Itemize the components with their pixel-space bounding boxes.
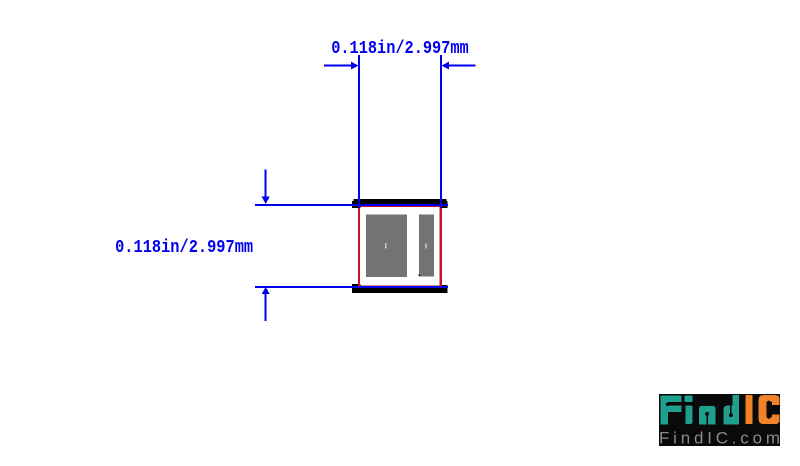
terminal bar top	[352, 199, 447, 208]
left dim horizontal line lower	[255, 286, 448, 288]
d circuit dot + trace	[729, 413, 733, 417]
letter I	[746, 395, 753, 424]
letter i	[685, 396, 693, 403]
logo background	[659, 394, 780, 446]
F circuit dot + trace	[666, 402, 670, 406]
C circuit dots + trace	[767, 401, 771, 405]
arrowhead right-pointing (top dim left)	[351, 62, 359, 70]
arrowhead left-pointing (top dim right)	[442, 62, 450, 70]
svg-text:0.118in/2.997mm: 0.118in/2.997mm	[115, 237, 253, 258]
terminal bar bottom	[352, 284, 447, 293]
top dim arrow line left	[324, 65, 352, 67]
pad 2 label	[425, 243, 427, 248]
pad 1 label	[385, 243, 387, 248]
arrowhead up-pointing (left dim lower)	[262, 287, 270, 294]
component body outline (red)	[359, 206, 441, 287]
letter F	[661, 396, 682, 425]
left dim horizontal line upper	[255, 204, 448, 206]
dimension lines (blue)	[255, 55, 476, 321]
FindIC logo	[659, 394, 780, 448]
pad 2	[419, 214, 434, 276]
extension line left (vertical)	[358, 55, 360, 208]
arrowhead down-pointing (left dim upper)	[262, 197, 270, 204]
letter C	[759, 395, 780, 424]
extension line right (vertical)	[440, 55, 442, 208]
pad 1	[366, 214, 407, 276]
n circuit dot + trace	[705, 412, 709, 416]
i circuit dot	[683, 402, 687, 406]
top dim arrow line right	[449, 65, 476, 67]
left dim vertical arrow line upper	[265, 170, 267, 198]
letter d	[723, 395, 739, 424]
left dim vertical arrow line lower	[265, 294, 267, 321]
svg-text:0.118in/2.997mm: 0.118in/2.997mm	[331, 38, 469, 59]
pad 2 origin dot	[419, 275, 421, 277]
letter n	[699, 406, 715, 425]
